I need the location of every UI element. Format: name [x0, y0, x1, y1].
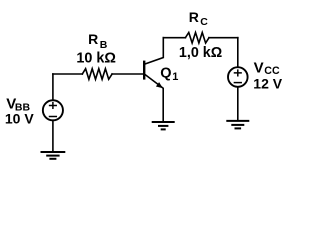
svg-text:B: B	[100, 39, 108, 51]
svg-text:10 kΩ: 10 kΩ	[76, 51, 116, 67]
svg-text:R: R	[88, 31, 98, 47]
svg-text:10 V: 10 V	[5, 111, 34, 127]
svg-text:C: C	[200, 16, 208, 28]
svg-text:Q: Q	[160, 66, 171, 82]
svg-text:R: R	[189, 9, 199, 25]
svg-text:1,0 kΩ: 1,0 kΩ	[179, 45, 222, 61]
svg-text:12 V: 12 V	[253, 75, 282, 91]
svg-text:V: V	[254, 59, 264, 76]
svg-text:1: 1	[172, 71, 178, 83]
